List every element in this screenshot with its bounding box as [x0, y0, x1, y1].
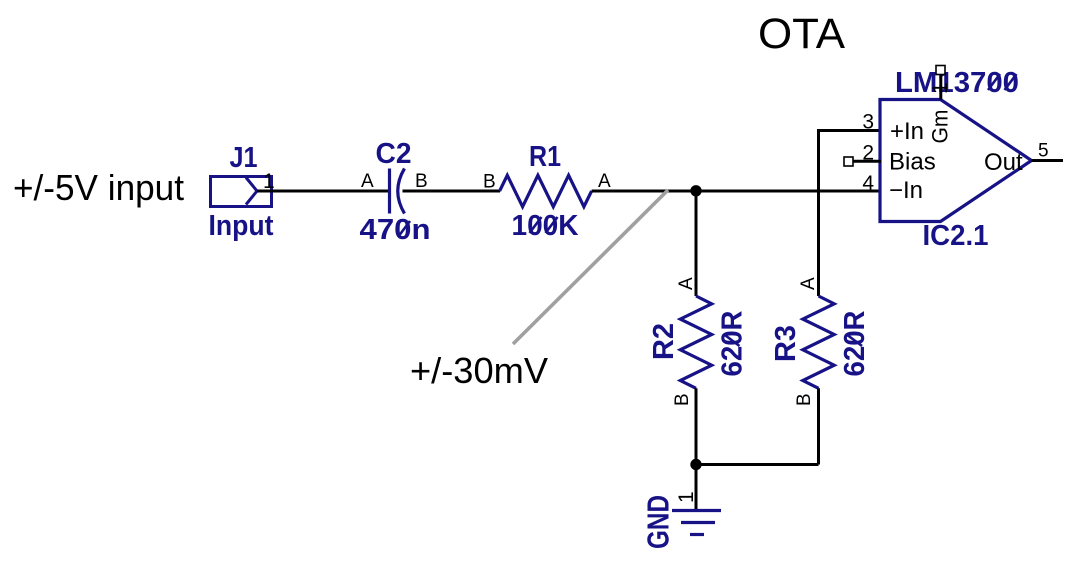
wire pin3 down to R3 — [817, 129, 820, 296]
connector J1 box — [211, 177, 272, 207]
svg-text:Bias: Bias — [889, 149, 936, 176]
svg-text:+/-30mV: +/-30mV — [410, 350, 548, 391]
unconnected pin square (top) — [936, 66, 945, 75]
out wire — [1032, 159, 1064, 162]
wire junction down to R2 — [695, 191, 698, 296]
svg-text:620R: 620R — [839, 310, 871, 376]
svg-text:R2: R2 — [648, 323, 680, 360]
wire J1 to C2 — [257, 190, 389, 193]
svg-text:+In: +In — [890, 118, 924, 145]
svg-text:Gm: Gm — [928, 110, 953, 144]
svg-text:B: B — [672, 393, 693, 406]
wire R1 to op-amp pin4 — [592, 190, 881, 193]
bias pin wire — [853, 160, 881, 163]
resistor R3 — [803, 296, 834, 388]
svg-text:A: A — [361, 171, 374, 192]
gray callout line — [513, 190, 668, 344]
top pin stub — [939, 74, 942, 100]
svg-text:C2: C2 — [376, 138, 412, 170]
slashed zero marks rotated (620R x2) — [724, 334, 740, 346]
svg-text:B: B — [794, 393, 815, 406]
svg-text:Input: Input — [209, 210, 274, 242]
slashed zero marks — [398, 74, 1017, 237]
svg-text:620R: 620R — [717, 310, 749, 376]
svg-text:1: 1 — [929, 82, 952, 94]
svg-text:B: B — [415, 171, 428, 192]
capacitor C2 — [390, 169, 405, 214]
wire R2 to bottom node — [695, 388, 698, 464]
svg-text:OTA: OTA — [758, 10, 845, 58]
svg-text:GND: GND — [641, 495, 676, 549]
svg-text:5: 5 — [1038, 141, 1049, 162]
svg-text:−In: −In — [889, 177, 923, 204]
svg-text:J1: J1 — [230, 142, 258, 174]
svg-text:Out: Out — [984, 149, 1023, 176]
svg-text:A: A — [598, 171, 611, 192]
wire C2 to R1 — [403, 190, 501, 193]
bottom wire R2/R3 — [696, 463, 819, 466]
junction node bottom — [690, 459, 701, 470]
unconnected pin square (bias) — [844, 157, 853, 166]
junction node — [690, 185, 701, 196]
svg-text:3: 3 — [862, 111, 874, 134]
resistor R1 — [500, 175, 592, 206]
ground symbol — [672, 511, 721, 535]
svg-text:100K: 100K — [512, 210, 579, 242]
svg-text:+/-5V input: +/-5V input — [13, 167, 184, 208]
svg-text:A: A — [798, 277, 819, 290]
svg-text:B: B — [483, 172, 496, 193]
wire to ground — [695, 465, 698, 512]
svg-text:470n: 470n — [360, 214, 431, 246]
wire R3 to bottom wire — [817, 388, 820, 464]
wire op-amp pin3 horizontal — [819, 129, 882, 132]
svg-text:LM13700: LM13700 — [895, 67, 1019, 99]
svg-text:R1: R1 — [529, 141, 561, 173]
svg-text:R3: R3 — [770, 325, 802, 362]
op-amp IC2.1 body — [880, 100, 1032, 222]
resistor R2 — [680, 296, 711, 388]
svg-text:4: 4 — [862, 172, 874, 195]
svg-text:1: 1 — [675, 491, 698, 503]
svg-text:IC2.1: IC2.1 — [923, 220, 989, 252]
svg-text:A: A — [676, 277, 697, 290]
